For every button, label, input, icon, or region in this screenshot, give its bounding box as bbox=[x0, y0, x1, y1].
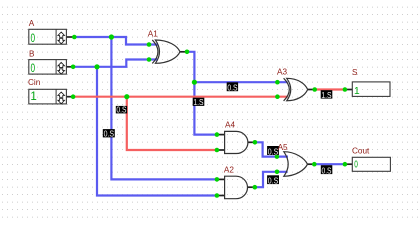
svg-text:S: S bbox=[352, 68, 358, 77]
svg-text:0.S: 0.S bbox=[268, 176, 278, 185]
svg-text:Cout: Cout bbox=[352, 146, 370, 155]
svg-text:0.S: 0.S bbox=[116, 106, 126, 115]
svg-text:1: 1 bbox=[30, 91, 36, 103]
svg-text:A: A bbox=[29, 19, 35, 28]
svg-text:0.S: 0.S bbox=[322, 166, 332, 175]
svg-text:A3: A3 bbox=[277, 67, 287, 76]
svg-text:A4: A4 bbox=[225, 121, 235, 130]
svg-text:0: 0 bbox=[31, 33, 36, 45]
svg-text:0.S: 0.S bbox=[104, 130, 114, 139]
svg-text:1: 1 bbox=[354, 86, 360, 97]
svg-text:Cin: Cin bbox=[28, 78, 41, 87]
svg-text:0: 0 bbox=[31, 63, 36, 75]
svg-text:A1: A1 bbox=[148, 30, 158, 39]
svg-text:1.S: 1.S bbox=[193, 98, 203, 107]
svg-text:A2: A2 bbox=[224, 165, 234, 174]
svg-text:1.S: 1.S bbox=[321, 91, 331, 100]
svg-text:A5: A5 bbox=[278, 143, 288, 152]
svg-text:0.S: 0.S bbox=[227, 83, 237, 92]
svg-text:B: B bbox=[29, 49, 35, 58]
svg-text:0: 0 bbox=[354, 159, 358, 170]
